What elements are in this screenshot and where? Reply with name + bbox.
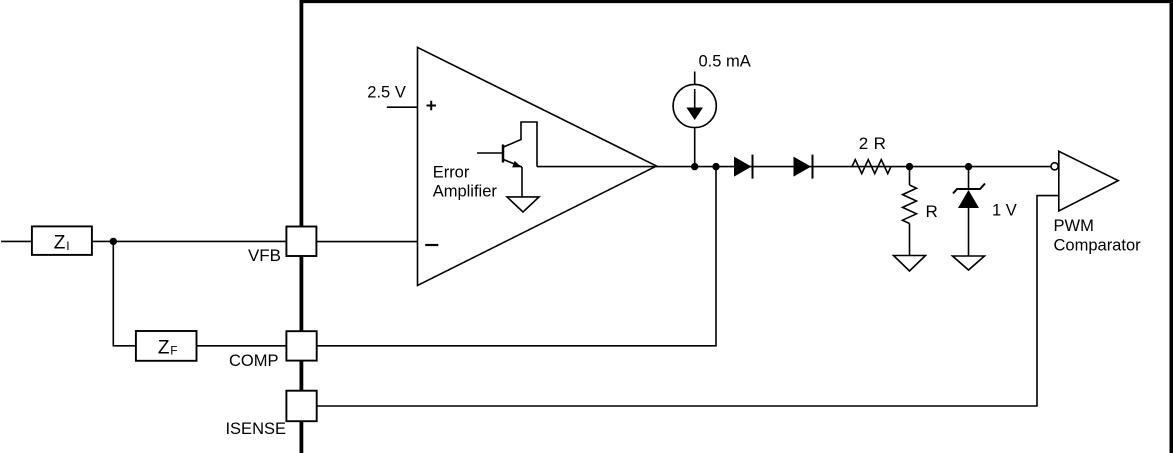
svg-text:F: F	[170, 344, 177, 358]
svg-text:Z: Z	[158, 337, 170, 358]
svg-text:COMP: COMP	[229, 352, 279, 370]
svg-text:2.5 V: 2.5 V	[367, 84, 406, 102]
svg-text:0.5 mA: 0.5 mA	[699, 53, 751, 71]
svg-text:Z: Z	[54, 232, 66, 253]
svg-text:Error: Error	[433, 164, 470, 182]
svg-text:2: 2	[859, 134, 868, 153]
svg-text:VFB: VFB	[248, 246, 281, 265]
svg-text:I: I	[66, 239, 69, 253]
svg-text:Comparator: Comparator	[1054, 237, 1142, 255]
svg-text:ISENSE: ISENSE	[225, 420, 286, 438]
svg-text:1 V: 1 V	[992, 202, 1017, 220]
svg-text:PWM: PWM	[1054, 217, 1094, 235]
svg-text:Amplifier: Amplifier	[433, 182, 498, 200]
svg-text:R: R	[874, 134, 886, 153]
svg-text:R: R	[926, 202, 938, 221]
